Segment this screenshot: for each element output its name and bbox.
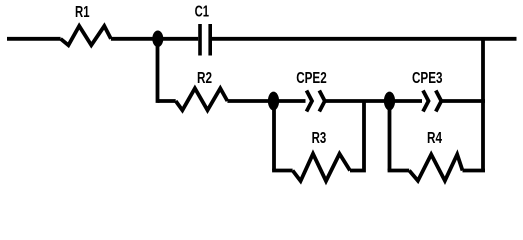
wire (463, 169, 486, 173)
wire (388, 101, 392, 171)
wire (272, 169, 293, 173)
resistor R1 (61, 4, 111, 45)
node C (384, 92, 395, 111)
svg-text:CPE2: CPE2 (296, 70, 327, 87)
CPE CPE3 (412, 70, 443, 111)
svg-text:CPE3: CPE3 (412, 70, 443, 87)
svg-text:C1: C1 (195, 3, 210, 20)
CPE CPE2 (296, 70, 327, 111)
resistor R4 (409, 130, 462, 181)
resistor R3 (293, 130, 350, 181)
node A (152, 31, 163, 48)
wire (388, 169, 410, 173)
wire (481, 39, 485, 171)
wire (111, 37, 198, 41)
wire (212, 37, 517, 41)
wire (158, 99, 176, 103)
resistor R2 (176, 70, 228, 110)
wire (156, 39, 160, 103)
wire (272, 101, 276, 171)
wire (227, 99, 305, 103)
svg-text:R3: R3 (312, 130, 327, 147)
capacitor C1 (195, 3, 211, 55)
wire (326, 99, 423, 103)
svg-text:R4: R4 (427, 130, 442, 147)
wire (442, 99, 485, 103)
wire (350, 101, 364, 171)
svg-text:R2: R2 (197, 70, 212, 87)
node B (268, 92, 279, 111)
wire (7, 37, 61, 41)
svg-text:R1: R1 (75, 4, 90, 21)
